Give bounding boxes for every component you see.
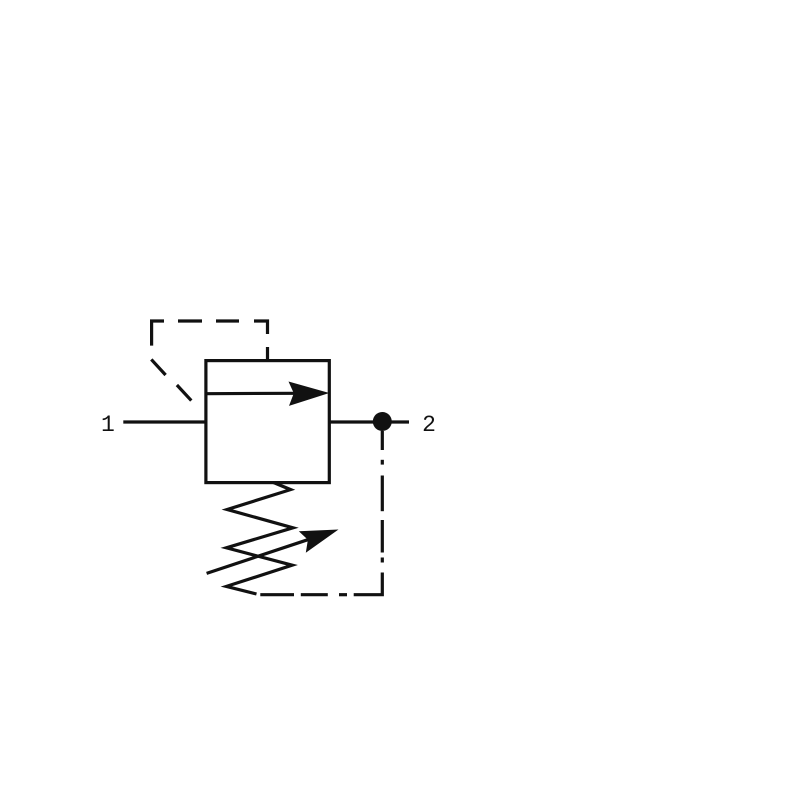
adjustment arrow shaft [207,538,312,573]
pilot line diagonal dash [177,385,191,401]
flow arrow shaft inside box [206,392,296,396]
drain line bottom-right corner [354,573,383,595]
pilot line dash [216,319,239,322]
spring (zigzag) [226,483,293,595]
port 1 line [123,420,206,423]
drain line dash [381,476,384,512]
pilot line (dashed) top-right corner [254,321,268,334]
svg-text:1: 1 [101,412,115,438]
drain line dash [301,593,328,596]
pilot line (dashed) top-left corner [152,321,164,346]
valve body box [206,361,329,483]
flow arrowhead [289,382,330,406]
drain line dash to spring end [260,593,294,596]
adjustment arrowhead [299,530,339,553]
pilot line dash into box top [266,347,269,361]
pilot line diagonal dash [151,359,165,375]
pilot line dash [178,319,202,322]
drain line dot [339,593,347,596]
drain line (dash-dot) vertical dash [381,431,384,450]
drain line dot [381,460,384,465]
junction dot [373,412,392,431]
drain line dot [381,558,384,563]
drain line dash [381,520,384,553]
svg-text:2: 2 [422,412,436,438]
port 2 line [329,420,409,423]
